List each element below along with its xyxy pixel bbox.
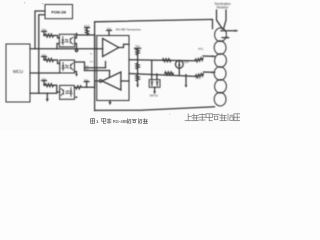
svg-text:GDT: GDT	[184, 60, 190, 64]
ground symbol G3	[153, 91, 156, 94]
node A bias dot	[137, 59, 139, 61]
svg-text:RE: RE	[86, 66, 90, 68]
GDT arrow mark	[178, 65, 181, 68]
wire DE pin	[85, 70, 110, 72]
ground stub opto2 emitter	[75, 72, 77, 75]
opto3 coupling arrows	[66, 90, 69, 93]
resistor R1	[44, 34, 55, 37]
wire receiver out to opto3	[87, 83, 95, 87]
resistor R6 (bias up)	[136, 49, 139, 55]
wire opto2 output	[75, 62, 85, 71]
caption char 1	[132, 119, 136, 122]
opto1 coupling arrows	[65, 38, 68, 41]
wire TVS pin2 to B	[156, 74, 158, 80]
watermark char 6	[228, 114, 233, 121]
ground symbol G4	[185, 85, 188, 88]
svg-text:DE: DE	[86, 69, 90, 71]
Vcc symbol bias ladder	[135, 44, 141, 49]
watermark char 7	[234, 114, 240, 121]
resistor R11 (PTC A, diagonal)	[195, 58, 203, 62]
Vcc symbol for R1	[42, 28, 47, 36]
Vcc symbol for R2	[42, 53, 47, 60]
wire B to earth drop	[185, 75, 187, 85]
caption char 0	[127, 119, 131, 124]
svg-text:SM712: SM712	[150, 94, 159, 98]
node B cable dot	[211, 71, 213, 73]
svg-text:RO: RO	[90, 61, 94, 63]
GDT through wire	[178, 60, 180, 74]
opto3 transistor (left side)	[62, 90, 64, 95]
wire R12 to cable	[204, 71, 215, 73]
opto2 coupling arrows	[66, 64, 69, 67]
wire line B	[129, 74, 195, 77]
wire line A	[129, 60, 195, 61]
scan speck 3	[169, 114, 170, 115]
leader line 1	[217, 10, 223, 29]
resistor R8 (bias down)	[136, 74, 139, 85]
resistor R7 (bias mid)	[136, 60, 139, 74]
opto3 LED (right side)	[70, 88, 72, 91]
opto1 LED	[62, 37, 64, 40]
opto2 transistor	[70, 64, 72, 69]
Vcc symbol transceiver	[107, 26, 112, 35]
wire DI into driver	[97, 48, 103, 50]
terminal opto1 emitter circle	[75, 44, 77, 50]
enable stub driver	[105, 62, 107, 68]
wire R2 to opto2 anode	[55, 60, 60, 64]
svg-text:RS-485 Transceiver: RS-485 Transceiver	[116, 27, 141, 31]
watermark char 2	[199, 114, 205, 121]
wire opto1 output node to driver input	[77, 34, 95, 36]
caption char 2	[138, 119, 142, 124]
wire R1 to opto1 anode	[55, 36, 60, 39]
receiver input stub	[121, 80, 129, 82]
TVS diode a	[151, 81, 153, 87]
resistor R2	[44, 59, 55, 62]
wire R11 to cable	[203, 55, 215, 57]
resistor R4 (pull-up, vertical)	[86, 29, 89, 35]
svg-text:DI: DI	[90, 53, 93, 55]
leader line 2	[224, 10, 227, 29]
wire R6 to A	[137, 55, 139, 60]
node B bias dot	[137, 73, 139, 75]
driver output jog	[119, 44, 129, 47]
watermark char 1	[192, 114, 198, 121]
watermark char 3	[206, 114, 212, 121]
watermark char 5	[220, 114, 226, 121]
wire TVS pin1 to A	[151, 60, 153, 80]
power module box PM1	[45, 5, 73, 19]
scan speck 1	[24, 2, 25, 3]
wire RE pin	[85, 67, 106, 69]
resistor R10 (B series)	[165, 72, 173, 75]
svg-text:1: 1	[96, 119, 99, 125]
ground symbol G7	[75, 74, 78, 77]
receiver bubble	[99, 80, 101, 82]
resistor R12 (PTC B, diagonal)	[195, 73, 203, 77]
svg-text:Vcc: Vcc	[135, 44, 140, 48]
watermark char 4	[213, 115, 219, 120]
enable stub receiver	[109, 71, 111, 77]
caption char 3	[143, 119, 147, 124]
ground symbol iso-gnd G6	[46, 99, 49, 102]
optocoupler U2	[60, 60, 75, 73]
wire R5 to opto3 anode	[73, 86, 75, 88]
node opto3 cathode dot	[75, 96, 77, 98]
bottom ground rail wire	[95, 107, 215, 111]
Vcc symbol for R4	[84, 24, 90, 29]
watermark char 0	[185, 114, 191, 121]
wire MCU TXD to opto1	[30, 48, 97, 50]
receiver op-amp triangle	[102, 72, 121, 90]
scan speck 2	[42, 3, 43, 4]
wire R3 to opto3 collector	[55, 85, 57, 92]
optocoupler U3	[60, 85, 75, 99]
GDT tube circle	[175, 60, 183, 68]
svg-text:Resistor: Resistor	[217, 6, 230, 10]
top Vcc rail wire	[95, 19, 213, 28]
wire MCU DE to opto2	[30, 72, 60, 74]
opto1 transistor	[69, 39, 71, 44]
paper noise	[0, 0, 240, 130]
TVS diode b	[156, 81, 158, 87]
wire MCU RXD from opto3	[30, 92, 60, 93]
ground stub below W3	[46, 93, 48, 99]
optocoupler U1	[59, 34, 74, 47]
svg-text:RS-485: RS-485	[113, 119, 129, 124]
wire pin2 of PM1	[39, 15, 45, 93]
ground symbol G1	[108, 102, 111, 105]
svg-text:MCU: MCU	[13, 69, 23, 74]
TVS ground pin	[154, 87, 156, 91]
svg-text:POW-1M: POW-1M	[51, 11, 66, 15]
MCU box U5	[6, 44, 30, 102]
wire opto1 cathode tap	[57, 44, 59, 49]
caption 表	[107, 119, 111, 124]
caption 图	[91, 119, 95, 124]
Vcc symbol for R3	[42, 77, 47, 85]
node opto1 collector junction	[75, 34, 77, 39]
node A cable dot	[211, 55, 213, 57]
opto2 LED	[62, 62, 64, 65]
driver op-amp triangle	[103, 39, 119, 57]
cable arrow 2	[222, 37, 229, 39]
RS-485 transceiver box U4	[97, 36, 129, 101]
TVS array box D1	[149, 80, 160, 88]
wire receiver output tap	[95, 80, 100, 82]
resistor R9 (A series)	[163, 59, 171, 62]
resistor R5	[75, 86, 87, 89]
twisted pair cable coil	[214, 28, 227, 107]
Vcc symbol for R5	[84, 78, 89, 88]
wire pin1 of PM1	[35, 11, 45, 49]
vertical wire receiver output bus	[94, 22, 96, 111]
svg-text:PTC: PTC	[198, 47, 203, 51]
wire driver input drop	[94, 35, 96, 49]
ground stub transceiver	[109, 101, 111, 103]
ground symbol G2	[136, 85, 139, 88]
cable arrow 1	[221, 30, 237, 32]
resistor R3	[44, 84, 55, 87]
caption 电	[102, 119, 106, 124]
